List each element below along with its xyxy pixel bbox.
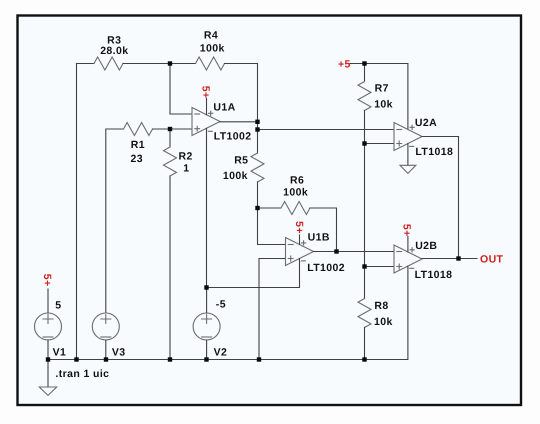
svg-text:V3: V3 (112, 347, 126, 359)
svg-text:23: 23 (131, 153, 143, 165)
voltage source V1 circle (35, 313, 62, 340)
V1 minus marker (43, 336, 53, 338)
U1B bottom power pin to -5 net (207, 259, 300, 288)
svg-text:10k: 10k (374, 316, 393, 328)
svg-text:LT1002: LT1002 (307, 262, 345, 274)
node C junction (R7 U2A+) (362, 141, 366, 145)
node D junction (U2B+ R8) (362, 264, 366, 268)
svg-text:+5: +5 (338, 59, 351, 71)
wire V3 up to R1 (106, 129, 124, 313)
wire R8 bottom to rail (364, 328, 366, 360)
U1B input plus marker (288, 256, 293, 261)
wire U2A output right and down to OUT node (422, 137, 459, 259)
wire node B to R6 (258, 207, 282, 209)
svg-text:LT1002: LT1002 (214, 130, 252, 142)
svg-text:V2: V2 (214, 347, 228, 359)
U1A input minus marker (195, 113, 200, 115)
U2B power minus marker (410, 267, 414, 269)
svg-text:100k: 100k (283, 187, 308, 199)
U2A power minus marker (410, 145, 414, 147)
wire output node down through tap (257, 122, 259, 153)
svg-text:10k: 10k (374, 99, 393, 111)
resistor R3 (94, 57, 123, 70)
svg-text:28.0k: 28.0k (100, 45, 128, 57)
wire R6 right corner down to U1B output (310, 208, 337, 252)
U1B output junction (334, 249, 338, 253)
V3 plus marker (101, 315, 111, 324)
U2B bottom power pin down to rail corner (365, 266, 408, 359)
svg-text:V1: V1 (53, 347, 67, 359)
svg-text:1: 1 (183, 163, 189, 175)
U2B input minus marker (397, 251, 402, 253)
OUT node junction (456, 256, 460, 260)
U2A bottom power pin to ground (407, 144, 409, 166)
U1A power plus marker (209, 111, 213, 115)
wire R1 to node A (153, 128, 171, 130)
svg-text:5: 5 (55, 300, 61, 312)
V1 plus marker (43, 315, 53, 324)
U1A top power pin (206, 99, 208, 115)
wire V2 bottom to rail (206, 340, 208, 360)
node A junction (R1 R2) (168, 127, 172, 131)
U2B input plus marker (397, 264, 402, 269)
wire rail to ground symbol (47, 360, 49, 388)
svg-text:R6: R6 (290, 174, 304, 186)
node B junction (R5 R6) (255, 206, 259, 210)
U2A power plus marker (410, 125, 414, 129)
U1A output junction (255, 120, 259, 124)
svg-text:R2: R2 (179, 151, 193, 163)
U1B power minus marker (301, 260, 305, 262)
svg-text:5+: 5+ (41, 274, 53, 287)
wire R3 to node R3R4 (123, 63, 170, 65)
ground rail bottom (48, 359, 365, 361)
op-amp U2B triangle (394, 245, 422, 273)
wire node A to U1A non-inverting input (170, 128, 192, 130)
svg-text:U2A: U2A (415, 117, 437, 129)
rail junction V3 (104, 357, 108, 361)
svg-text:U1B: U1B (308, 231, 330, 243)
wire U2B output to OUT (422, 258, 477, 260)
svg-text:5+: 5+ (401, 224, 413, 237)
wire U1B output to U2B inverting input (314, 251, 395, 253)
svg-text:5+: 5+ (200, 86, 212, 99)
wire left vertical from R3 left down to ground rail (76, 64, 78, 360)
U1B power plus marker (302, 241, 306, 245)
wire R7 bottom to node C (364, 111, 366, 144)
wire node D down to R8 (364, 267, 366, 299)
wire node D to U2B non-inverting input (365, 266, 395, 268)
resistor R1 (124, 123, 153, 136)
svg-text:R5: R5 (234, 155, 248, 167)
-5 node junction (204, 285, 208, 289)
ground symbol main (39, 387, 56, 395)
U1B input minus marker (288, 244, 293, 246)
svg-text:U1A: U1A (213, 102, 235, 114)
wire R5 bottom to node B (257, 182, 259, 208)
V3 minus marker (101, 336, 111, 338)
wire top-left lead to R3 (77, 63, 95, 65)
voltage source V2 circle (193, 313, 220, 340)
resistor R4 (196, 57, 225, 70)
U1A input plus marker (195, 126, 200, 131)
wire U1B non-inverting input down to rail (259, 259, 286, 360)
svg-text:LT1018: LT1018 (415, 269, 453, 281)
node R3R4 junction (168, 61, 172, 65)
U2B top power pin (407, 237, 409, 252)
U1A power minus marker (208, 130, 212, 132)
svg-text:OUT: OUT (480, 254, 504, 266)
wire node R3R4 down to U1A inverting input (170, 64, 192, 115)
svg-text:.tran 1 uic: .tran 1 uic (55, 368, 109, 380)
rail junction V1 (46, 357, 50, 361)
op-amp U2A triangle (394, 123, 422, 151)
wire node C to U2A non-inverting input (365, 143, 395, 145)
V2 plus marker (202, 315, 212, 324)
svg-text:100k: 100k (200, 43, 225, 55)
op-amp U1A triangle (192, 108, 220, 136)
V2 minus marker (202, 336, 212, 338)
svg-text:R7: R7 (375, 83, 389, 95)
svg-text:100k: 100k (223, 170, 248, 182)
op-amp U1B triangle (286, 238, 314, 266)
U2A inv input tap junction (255, 127, 259, 131)
svg-text:R8: R8 (374, 300, 388, 312)
wire +5 stub top right (350, 63, 365, 65)
rail junction left vertical (74, 357, 78, 361)
resistor R8 (358, 299, 371, 328)
wire node to R4 (170, 63, 196, 65)
svg-text:5+: 5+ (293, 221, 305, 234)
resistor R6 (281, 202, 310, 215)
wire R2 down to rail (169, 176, 171, 360)
U1B top power pin (299, 235, 301, 244)
wire V3 bottom to rail (105, 340, 107, 360)
wire R4 to right corner down to U1A output (225, 64, 258, 122)
node +5 top right junction (362, 61, 366, 65)
rail junction R8 (362, 357, 366, 361)
wire V1 bottom to rail (47, 340, 49, 360)
svg-text:LT1018: LT1018 (415, 146, 453, 158)
U1A bottom power pin down to -5 net (206, 128, 208, 287)
wire V2 top to -5 node (206, 288, 208, 314)
svg-text:-5: -5 (216, 299, 226, 311)
U2B power plus marker (410, 248, 414, 252)
wire U1A output (220, 121, 258, 123)
svg-text:R1: R1 (131, 139, 145, 151)
ground symbol under U2A (400, 165, 416, 173)
resistor R2 (164, 147, 177, 176)
U2A input minus marker (397, 129, 402, 131)
svg-text:R4: R4 (204, 30, 218, 42)
wire +5 node to U2A top power (365, 64, 408, 130)
wire node B down to U1B inverting input (258, 208, 286, 245)
rail junction R2 (168, 357, 172, 361)
svg-text:U2B: U2B (415, 240, 437, 252)
voltage source V3 circle (92, 313, 119, 340)
rail junction V2 (204, 357, 208, 361)
wire +5 node down to R7 (364, 64, 366, 82)
resistor R7 (358, 82, 371, 111)
rail junction U1B+ (257, 357, 261, 361)
red net labels (41, 59, 503, 287)
wire node C down to node D (364, 144, 366, 267)
wire V1 top stub to +5 (47, 289, 49, 313)
wire tap to U2A inverting input (258, 129, 395, 131)
resistor R5 (251, 153, 264, 182)
U2A input plus marker (397, 141, 402, 146)
wire node A down to R2 (169, 129, 171, 147)
